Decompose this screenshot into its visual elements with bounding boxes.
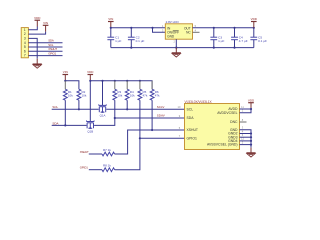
junction C3 bottom	[213, 47, 215, 49]
resistor R2 10k	[77, 89, 81, 100]
svg-text:1 µF: 1 µF	[218, 39, 224, 43]
junction GPIO1 branch	[139, 137, 141, 139]
svg-text:VL53L0X/VL53L1X: VL53L0X/VL53L1X	[185, 100, 213, 104]
svg-text:47k: 47k	[155, 94, 160, 98]
svg-text:VIN: VIN	[43, 21, 48, 25]
wire R2 to SCL	[78, 100, 80, 109]
wire GND3 to vertical	[240, 136, 252, 138]
svg-text:R7 1k: R7 1k	[103, 148, 111, 152]
junction C4 bottom	[233, 47, 235, 49]
capacitor C4 4.7uF	[234, 28, 236, 37]
resistor R7 1k	[102, 152, 115, 156]
junction AVDD	[250, 108, 252, 110]
power symbol VDD (J1 pin 1)	[36, 20, 38, 26]
wire AVDDVCSEL to VDD	[240, 109, 252, 113]
power symbol VIN (rail)	[110, 22, 112, 28]
svg-text:10k: 10k	[82, 94, 87, 98]
svg-text:1 µF: 1 µF	[115, 39, 121, 43]
transistor Q1A	[99, 104, 107, 106]
svg-text:GPIO1: GPIO1	[187, 136, 197, 140]
regulator U2 body	[165, 24, 192, 39]
svg-text:10k: 10k	[68, 94, 73, 98]
wire ground rail	[111, 47, 254, 49]
junction GND3	[250, 136, 252, 138]
svg-text:0.1 µF: 0.1 µF	[258, 39, 267, 43]
wire GND2 to vertical	[240, 133, 252, 135]
wire pin5 net SCL	[28, 46, 62, 48]
wire SCL	[52, 108, 99, 110]
junction GND4	[250, 140, 252, 142]
svg-text:GND: GND	[167, 34, 175, 38]
junction LDO IN	[151, 27, 153, 29]
svg-text:SCL: SCL	[52, 105, 58, 109]
wire VDD stem to Q1B gate	[89, 81, 91, 122]
wire VDD out rail	[193, 27, 254, 29]
ground (U1)	[250, 148, 252, 153]
svg-text:0.1 µF: 0.1 µF	[136, 39, 145, 43]
power symbol VIN (pullups)	[64, 75, 66, 81]
junction C4 top	[233, 27, 235, 29]
wire VIN rail	[111, 27, 166, 29]
wire pin3 to ground	[28, 38, 37, 58]
svg-text:SDA: SDA	[187, 116, 195, 120]
svg-text:SCL: SCL	[187, 107, 194, 111]
junction VIN rail R1	[64, 80, 66, 82]
svg-text:4.7 µF: 4.7 µF	[239, 39, 248, 43]
svg-text:GPIO1: GPIO1	[48, 51, 56, 55]
junction LDO GND rail	[175, 47, 177, 49]
wire XSHUT left	[89, 153, 102, 155]
svg-text:VDD: VDD	[34, 16, 41, 20]
wire SCLV	[106, 108, 184, 110]
wire SDA	[52, 124, 87, 126]
svg-text:Q1B: Q1B	[87, 130, 93, 134]
sensor U1 body	[185, 104, 240, 150]
junction GND2	[250, 132, 252, 134]
wire SDAV jog	[94, 118, 184, 125]
junction R3 SDAV	[114, 117, 116, 119]
capacitor C5 0.1uF	[253, 28, 255, 37]
junction C2 bottom	[130, 47, 132, 49]
capacitor C2 0.1uF	[130, 28, 132, 37]
wire Q1A gate	[102, 81, 104, 106]
svg-text:10k: 10k	[130, 94, 135, 98]
resistor R1 10k	[63, 89, 67, 100]
connector J1 body	[21, 28, 28, 58]
junction R1 SDA	[64, 124, 66, 126]
svg-text:VDD: VDD	[248, 98, 255, 102]
resistor R5 47k	[138, 89, 142, 100]
wire GND4 to vertical	[240, 140, 252, 142]
svg-text:GPIO1: GPIO1	[80, 166, 88, 170]
power symbol VDD (LDO out)	[253, 22, 255, 28]
wire R3 to SDAV	[114, 100, 116, 118]
wire pin6 net XSHUT	[28, 50, 62, 52]
U1 DNC stub	[240, 121, 247, 123]
wire pin2 to VIN	[28, 32, 45, 34]
junction R5 rail	[139, 80, 141, 82]
capacitor C1 1uF	[110, 28, 112, 37]
transistor Q1B	[87, 121, 95, 123]
wire GPIO1 left	[89, 169, 102, 171]
junction VDD rail	[89, 80, 91, 82]
power symbol VIN (J1 pin 2)	[45, 25, 47, 31]
wire R1 to SDA	[64, 100, 66, 125]
junction R2 SCL	[78, 108, 80, 110]
svg-text:R8 1k: R8 1k	[103, 164, 111, 168]
wire U2 GND to rail	[175, 39, 177, 47]
wire GPIO1 to IC	[115, 138, 185, 169]
junction Q1A gate rail	[101, 80, 103, 82]
svg-text:SDA: SDA	[52, 121, 58, 125]
svg-text:2.8V LDO: 2.8V LDO	[166, 20, 180, 24]
svg-text:XSHUT: XSHUT	[80, 150, 89, 154]
svg-text:VIN: VIN	[108, 17, 113, 21]
junction C3 top	[213, 27, 215, 29]
svg-text:VDD: VDD	[251, 17, 258, 21]
wire U1 grounds	[240, 130, 252, 148]
junction R4 SCLV	[126, 108, 128, 110]
svg-text:XSHUT: XSHUT	[187, 128, 199, 132]
svg-text:NC: NC	[186, 30, 191, 34]
svg-text:SDAV: SDAV	[157, 113, 165, 117]
wire R5 to GPIO1 node	[139, 100, 141, 138]
U2 NC stub	[193, 31, 200, 33]
svg-text:7: 7	[24, 54, 26, 58]
junction C5/VDD	[253, 27, 255, 29]
capacitor C3 1uF	[213, 28, 215, 37]
wire AVSSVCSEL to vertical	[240, 144, 252, 146]
ground (J1 pin 3)	[36, 59, 38, 64]
resistor R6 47k	[150, 89, 154, 100]
wire AVDD to VDD	[240, 108, 252, 110]
wire pin1 to VDD	[28, 27, 37, 30]
junction VIN/C1	[110, 27, 112, 29]
power symbol VDD (U1)	[250, 103, 252, 109]
junction R3 rail	[114, 80, 116, 82]
junction R6 XSHUT	[151, 129, 153, 131]
svg-text:VDD: VDD	[87, 70, 94, 74]
svg-text:AVDDVCSEL: AVDDVCSEL	[217, 111, 237, 115]
svg-text:AVSSVCSEL (GND): AVSSVCSEL (GND)	[207, 143, 238, 147]
svg-text:Q1A: Q1A	[100, 114, 106, 118]
svg-text:10k: 10k	[117, 94, 122, 98]
wire VIN pullup rail	[65, 81, 79, 89]
junction C2 top	[130, 27, 132, 29]
wire ON/OFF tie	[153, 28, 166, 33]
junction R4 rail	[126, 80, 128, 82]
resistor R3 10k	[113, 89, 117, 100]
wire R6 to XSHUT node	[151, 100, 153, 130]
resistor R4 10k	[125, 89, 129, 100]
svg-text:VIN: VIN	[63, 70, 68, 74]
ground (LDO)	[175, 48, 177, 53]
wire pin4 net SDA	[28, 42, 62, 44]
wire XSHUT to IC	[115, 130, 185, 154]
svg-text:SCLV: SCLV	[157, 105, 165, 109]
svg-text:DNC: DNC	[230, 120, 238, 124]
wire VDD pullup rail	[90, 81, 152, 89]
power symbol VDD (pullups)	[89, 75, 91, 81]
wire pin7 net GPIO1	[28, 55, 62, 57]
svg-text:47k: 47k	[143, 94, 148, 98]
wire R4 to SCLV	[126, 100, 128, 109]
junction AVSSVCSEL	[250, 144, 252, 146]
resistor R8 1k	[102, 168, 115, 172]
